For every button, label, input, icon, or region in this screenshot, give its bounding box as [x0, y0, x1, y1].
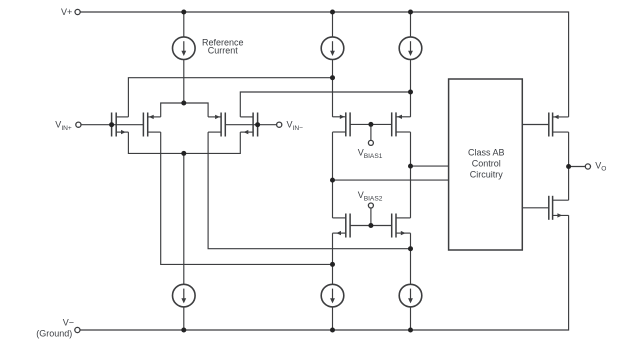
wire V- rail — [80, 215, 568, 330]
wire tail lead — [183, 153, 185, 284]
transistor Q8 (bottom-right cascode NMOS) — [392, 214, 411, 238]
wire left chain mid — [332, 132, 334, 218]
wire VIN+ to gates — [81, 124, 143, 126]
wire Q4 drain to right chain — [240, 92, 410, 117]
junction left chain top — [330, 75, 335, 80]
wire box to Q10 gate — [522, 207, 549, 209]
wire to VO terminal — [569, 166, 586, 168]
junction right chain mid — [408, 164, 413, 169]
wire I2 leads — [332, 12, 334, 37]
node VBIAS1 terminal — [368, 140, 373, 145]
junction PMOS source node — [181, 101, 186, 106]
junction VBIAS1 node — [368, 122, 373, 127]
wire VBIAS1 gate bus — [350, 123, 392, 125]
current source I2 — [321, 37, 344, 60]
transistor Q6 (top-right cascode PMOS) — [392, 112, 411, 136]
junction VIN+ at Q1 gate — [109, 122, 114, 127]
node V+ terminal — [75, 9, 80, 14]
node VIN- terminal — [277, 122, 282, 127]
current source I3 — [399, 37, 422, 60]
wire right chain to box — [411, 165, 449, 167]
wire right chain mid — [410, 132, 412, 218]
junction VIN- at Q4 gate — [255, 122, 260, 127]
wire I5 leads — [332, 233, 334, 284]
wire VIN- to gates — [225, 124, 276, 126]
wire Q3 drain to right summing node — [208, 132, 410, 249]
node VBIAS2 terminal — [368, 203, 373, 208]
wire NMOS pair common source — [128, 132, 240, 153]
junction VBIAS2 node — [368, 223, 373, 228]
junction V+ rail at I3 — [408, 10, 413, 15]
junction V+ rail at I2 — [330, 10, 335, 15]
transistor Q9 (output PMOS) — [549, 113, 569, 137]
junction NMOS source node — [181, 151, 186, 156]
svg-text:V+: V+ — [61, 7, 72, 17]
junction V- rail at tail — [181, 328, 186, 333]
wire I6 leads — [410, 233, 412, 284]
current source I1 (reference) — [173, 37, 196, 60]
wire Q2 drain to left summing node — [161, 132, 333, 264]
svg-text:Class AB: Class AB — [468, 148, 505, 158]
wire box to Q9 gate — [522, 124, 549, 126]
svg-text:Control: Control — [472, 159, 501, 169]
node VO terminal — [585, 164, 590, 169]
transistor Q4 (outer-right NMOS input) — [240, 113, 257, 137]
transistor Q7 (bottom-left cascode NMOS) — [333, 214, 351, 238]
transistor Q3 (inner-right PMOS input) — [208, 113, 225, 137]
transistor Q10 (output NMOS) — [549, 196, 569, 220]
wire left chain to box — [333, 179, 449, 181]
junction output node — [566, 164, 571, 169]
junction left summing node — [330, 262, 335, 267]
junction V+ rail at reference — [181, 10, 186, 15]
wire Q1 drain to left chain — [128, 78, 332, 117]
wire PMOS pair common source — [161, 103, 208, 117]
transistor Q1 (outer-left NMOS input) — [112, 113, 129, 137]
svg-text:(Ground): (Ground) — [36, 329, 72, 339]
block Class AB Control Circuitry — [449, 79, 523, 250]
svg-text:Circuitry: Circuitry — [470, 169, 503, 179]
wire reference current source leads — [183, 12, 185, 37]
wire output node — [568, 132, 570, 200]
junction V- rail at I5 — [330, 328, 335, 333]
wire I3 leads — [410, 12, 412, 37]
transistor Q2 (inner-left PMOS input) — [143, 113, 160, 137]
junction right summing node — [408, 246, 413, 251]
svg-text:V−: V− — [63, 317, 74, 327]
wire VBIAS2 gate bus — [350, 225, 392, 227]
wire V+ rail — [80, 12, 568, 117]
transistor Q5 (top-left cascode PMOS) — [333, 112, 351, 136]
junction V- rail at I6 — [408, 328, 413, 333]
node VIN+ terminal — [76, 122, 81, 127]
junction left chain mid — [330, 178, 335, 183]
current source I4 (tail) — [173, 284, 196, 307]
wire I4 bottom lead — [183, 307, 185, 330]
junction right chain top — [408, 90, 413, 95]
current source I5 — [321, 284, 344, 307]
node V- terminal — [75, 327, 80, 332]
svg-text:Current: Current — [208, 46, 239, 56]
current source I6 — [399, 284, 422, 307]
